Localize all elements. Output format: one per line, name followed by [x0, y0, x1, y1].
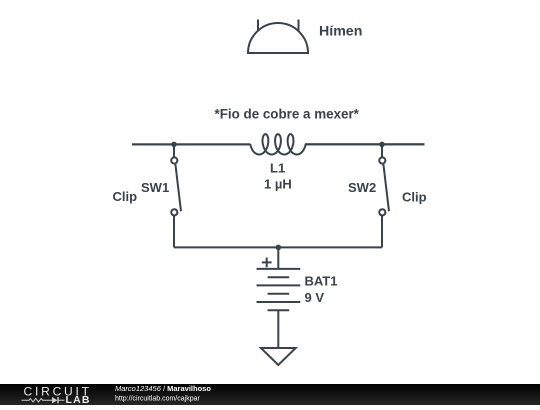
svg-text:SW1: SW1: [141, 180, 169, 195]
svg-text:BAT1: BAT1: [305, 274, 338, 289]
plus sign of BAT1: [262, 258, 272, 268]
svg-text:Hímen: Hímen: [319, 23, 362, 39]
junction node bottom-center: [276, 245, 282, 251]
svg-text:http://circuitlab.com/cajkpar: http://circuitlab.com/cajkpar: [115, 395, 200, 402]
svg-text:Marco123456 / Maravilhoso: Marco123456 / Maravilhoso: [115, 384, 211, 393]
svg-text:Clip: Clip: [402, 190, 427, 205]
switch SW2: [379, 144, 389, 247]
inductor L1 coil: [132, 134, 425, 154]
svg-text:1 µH: 1 µH: [264, 177, 292, 192]
wire bottom horizontal: [174, 246, 382, 248]
svg-text:9 V: 9 V: [305, 290, 325, 305]
wire top horizontal left segment: [132, 143, 250, 145]
svg-text:*Fio de cobre a mexer*: *Fio de cobre a mexer*: [215, 107, 360, 122]
svg-text:LAB: LAB: [66, 394, 91, 405]
junction node top-right: [379, 142, 385, 148]
switch SW1: [171, 144, 181, 247]
svg-text:Clip: Clip: [113, 189, 138, 204]
svg-text:L1: L1: [270, 161, 285, 176]
svg-text:SW2: SW2: [348, 180, 376, 195]
component "Hímen" (dome symbol): [248, 20, 308, 54]
junction node top-left: [171, 142, 177, 148]
battery BAT1: [257, 247, 301, 348]
wire top horizontal right segment: [306, 143, 425, 145]
ground: [261, 348, 296, 365]
